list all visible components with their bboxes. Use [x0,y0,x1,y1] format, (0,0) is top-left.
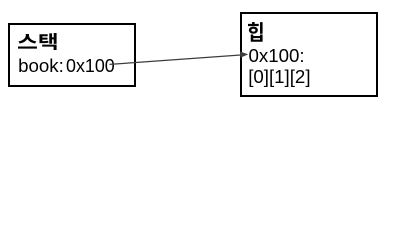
label 스택 (Stack) [18,33,57,51]
label book: 0x100 [18,56,64,76]
heap box [240,12,378,97]
stack box [8,23,136,87]
wire arrow from book:0x100 to heap 0x100 [0,0,397,108]
label 0x100: [249,46,305,66]
label [0][1][2] [248,67,310,87]
label 힙 (Heap) [248,22,263,42]
